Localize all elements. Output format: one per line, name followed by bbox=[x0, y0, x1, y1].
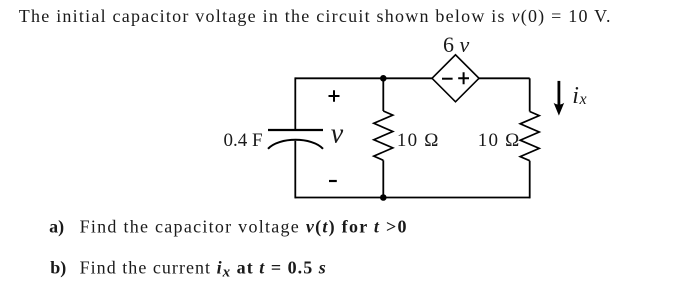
svg-text:a): a) bbox=[49, 216, 64, 237]
resistor R2 zigzag 10 ohm (right) bbox=[520, 112, 539, 161]
svg-text:10 Ω: 10 Ω bbox=[478, 130, 521, 151]
svg-text:b): b) bbox=[50, 257, 66, 278]
wire: middle branch lower segment bbox=[382, 160, 384, 197]
svg-text:The initial capacitor voltage: The initial capacitor voltage in the cir… bbox=[19, 6, 612, 27]
dependent source U1 diamond body bbox=[432, 55, 479, 102]
node B junction dot (bottom) bbox=[380, 194, 387, 201]
svg-text:10 Ω: 10 Ω bbox=[397, 130, 440, 151]
svg-text:Find the current ix at t = 0.5: Find the current ix at t = 0.5 s bbox=[80, 257, 327, 280]
dependent source minus sign bbox=[442, 78, 453, 80]
wire: right branch upper segment bbox=[529, 78, 531, 111]
wire: middle branch upper segment bbox=[382, 78, 384, 111]
svg-text:v: v bbox=[331, 119, 344, 150]
minus polarity mark of v bbox=[329, 180, 337, 182]
wire: top side from diamond right tip to right corner bbox=[479, 77, 530, 79]
capacitor C1 curved bottom plate bbox=[268, 140, 323, 149]
resistor R1 zigzag 10 ohm (middle) bbox=[374, 111, 393, 160]
dependent source plus sign bbox=[458, 72, 469, 84]
svg-text:6 v: 6 v bbox=[443, 32, 470, 57]
svg-text:ix: ix bbox=[572, 83, 586, 109]
current ix arrow head bbox=[554, 103, 565, 116]
node A junction dot (top) bbox=[380, 75, 387, 82]
wire: left branch lower segment (from capacitor curved plate) bbox=[294, 141, 296, 199]
wire: right branch lower segment bbox=[529, 161, 531, 199]
svg-text:Find the capacitor voltage v(t: Find the capacitor voltage v(t) for t >0 bbox=[80, 216, 408, 237]
plus polarity mark of v bbox=[329, 90, 340, 101]
capacitor C1 top plate bbox=[268, 129, 323, 131]
wire: bottom side bbox=[295, 197, 529, 199]
current ix arrow shaft bbox=[558, 81, 561, 107]
wire: left branch upper segment (to capacitor top plate) bbox=[294, 77, 296, 130]
svg-text:0.4 F: 0.4 F bbox=[224, 130, 263, 151]
wire: top side from left corner to diamond left tip bbox=[295, 77, 432, 79]
